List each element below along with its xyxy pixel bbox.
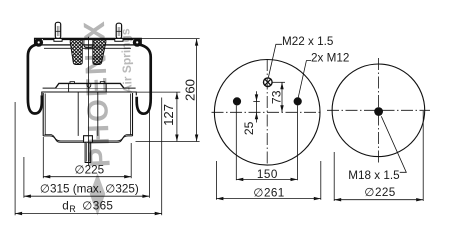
arrowheads side view	[15, 39, 198, 216]
piston bottom profile	[43, 136, 132, 143]
bead tangent line	[44, 47, 131, 49]
svg-text:R: R	[69, 204, 76, 214]
top plate	[35, 38, 142, 45]
bumper right lobe (hatched)	[93, 40, 106, 65]
svg-text:PHOENIX: PHOENIX	[78, 19, 117, 168]
piston top cap	[56, 83, 124, 88]
svg-text:25: 25	[242, 121, 256, 135]
stud 2	[116, 23, 121, 38]
svg-text:127: 127	[161, 104, 176, 126]
leader M18 (right view)	[381, 116, 406, 172]
dim O365 line	[15, 213, 162, 215]
dim O225 line	[43, 176, 131, 178]
dim O225 right	[333, 152, 335, 201]
svg-text:Air Springs: Air Springs	[118, 28, 135, 94]
extension lines	[141, 38, 199, 40]
dim 150	[235, 106, 237, 181]
center stem	[85, 142, 91, 162]
dim O315 line	[24, 195, 149, 197]
svg-text:d: d	[62, 199, 69, 212]
crosshair	[327, 109, 430, 111]
dim O261	[215, 161, 217, 200]
arrowheads middle	[216, 82, 320, 200]
svg-text:150: 150	[257, 168, 278, 181]
center boss	[84, 136, 93, 143]
svg-text:260: 260	[182, 79, 197, 101]
bellows outline right	[137, 45, 151, 114]
piston center notch	[87, 83, 91, 87]
leader M12	[298, 61, 311, 98]
stud 1	[55, 22, 60, 38]
svg-text:73: 73	[270, 90, 284, 104]
svg-text:∅315 (max. ∅325): ∅315 (max. ∅325)	[40, 183, 139, 196]
bead right	[133, 38, 142, 47]
horizontal center line	[212, 111, 323, 113]
bellows outline left	[28, 45, 42, 114]
dim 25	[253, 100, 259, 102]
leader M22	[268, 44, 282, 77]
piston walls	[42, 93, 44, 136]
svg-text:M18 x 1.5: M18 x 1.5	[348, 169, 400, 182]
svg-text:∅261: ∅261	[253, 187, 284, 200]
dim 127	[176, 92, 178, 141]
bead left	[34, 38, 43, 47]
piston inner tube lines	[77, 92, 79, 136]
M12 dots	[233, 97, 241, 105]
piston flange	[42, 92, 137, 95]
piston cap bumps	[70, 82, 75, 84]
bumper left lobe (hatched)	[70, 40, 82, 65]
dim 73 line + tick	[272, 81, 286, 83]
piston bottom inner line	[45, 134, 133, 141]
dim 260	[196, 39, 198, 142]
vertical center line	[266, 59, 268, 166]
dim texts side view	[40, 79, 197, 214]
svg-text:2x M12: 2x M12	[311, 51, 349, 64]
svg-text:M22 x 1.5: M22 x 1.5	[282, 35, 334, 48]
texts middle	[242, 35, 349, 199]
center line	[87, 37, 89, 165]
circle O261	[214, 60, 320, 166]
bumper center hatch bits	[84, 40, 93, 48]
circle O225	[332, 64, 425, 157]
M18 dot	[374, 107, 383, 116]
piston cap side verticals	[68, 84, 70, 92]
svg-text:∅225: ∅225	[364, 186, 395, 199]
M22 fitting circle with cross	[264, 78, 273, 87]
